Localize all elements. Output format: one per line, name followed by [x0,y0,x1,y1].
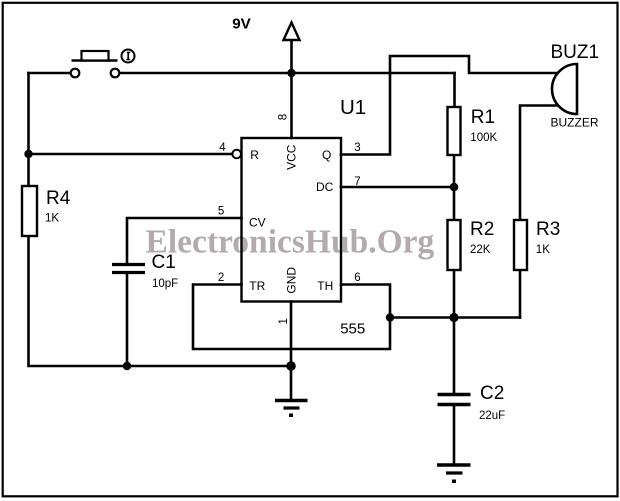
9V supply arrow [284,23,300,41]
svg-text:C2: C2 [480,383,504,404]
svg-text:10pF: 10pF [152,278,178,290]
junction dot pin1 rail [286,361,296,371]
ground symbol C2 [437,465,471,473]
svg-text:C1: C1 [152,252,176,273]
wire top rail left segment [29,72,71,75]
push button S1 left terminal [71,69,80,78]
svg-text:GND: GND [285,267,299,294]
wire pin8 VCC [290,73,293,138]
wire C2 bottom to ground [453,406,456,463]
junction dot C1 bottom rail [123,362,131,370]
svg-text:5: 5 [218,206,224,218]
push button S1 contact bar [72,59,118,62]
resistor R3 [514,220,527,270]
buzzer BUZ1 symbol [552,64,577,114]
svg-text:R1: R1 [471,107,495,128]
svg-text:BUZZER: BUZZER [551,115,599,129]
wire pin4 R [29,153,233,156]
wire R4 bottom to bottom rail [29,236,292,366]
wire pin5 CV to C1 [127,218,242,263]
svg-text:1K: 1K [536,244,550,256]
push button key icon [122,50,135,63]
junction dot TH [386,313,394,321]
wire R1 bottom to R2 top [453,155,456,220]
svg-text:R: R [250,148,259,162]
svg-text:Q: Q [322,148,331,162]
wire pin6 TH [341,285,390,318]
wire pin7 DC [341,186,454,189]
wire R3 top to buzzer [520,106,559,221]
svg-text:R3: R3 [536,219,560,240]
IC U1 555 box [242,138,342,302]
svg-text:7: 7 [354,176,360,188]
push button S1 cap [82,51,109,61]
wire left rail down [27,73,30,186]
svg-text:8: 8 [278,114,290,120]
svg-text:DC: DC [316,180,334,194]
ground symbol pin1 [275,401,308,409]
svg-text:22K: 22K [470,244,491,256]
svg-text:2: 2 [218,272,224,284]
svg-text:3: 3 [354,142,360,154]
svg-text:9V: 9V [232,16,251,33]
wire pin3 Q up and over [341,56,558,155]
junction dot pin4 left rail [24,150,32,158]
svg-text:555: 555 [340,321,365,338]
svg-text:1K: 1K [45,213,59,225]
svg-text:22uF: 22uF [479,410,505,422]
svg-text:U1: U1 [340,96,366,119]
wire 9V arrow stem [290,40,293,73]
wire drop to R1 top [453,73,456,107]
wire R2 bottom to junction [453,270,456,318]
capacitor C2 [438,395,471,405]
svg-text:ElectronicsHub.Org: ElectronicsHub.Org [146,223,435,260]
junction dot R2-C2 [449,313,458,322]
wire junction to C2 [453,318,456,394]
resistor R2 [448,220,461,270]
junction dot DC-R1R2 [450,183,459,192]
svg-text:TR: TR [249,279,265,293]
svg-text:TH: TH [317,279,333,293]
pin4 inversion bubble [232,150,241,159]
svg-text:CV: CV [249,216,266,230]
svg-text:6: 6 [354,272,360,284]
wire pin1 GND down [290,302,293,367]
resistor R1 [448,107,461,155]
wire 9V junction to R1 drop [292,72,455,75]
wire TH junction to R3 column [390,316,520,319]
svg-text:R4: R4 [46,188,71,209]
svg-text:1: 1 [278,318,290,324]
svg-text:VCC: VCC [285,144,299,170]
svg-text:4: 4 [219,142,226,154]
svg-text:BUZ1: BUZ1 [551,42,600,63]
wire pin2 TR loop [193,285,390,350]
junction dot 9V rail [287,69,295,77]
wire R3 bottom [519,270,522,318]
resistor R4 [22,186,37,236]
push button S1 right terminal [111,69,120,78]
wire switch to 9V junction [120,72,292,75]
svg-text:R2: R2 [470,219,494,240]
wire pin1 junction to ground [290,366,293,398]
svg-text:100K: 100K [470,132,497,144]
capacitor C1 [112,265,145,273]
wire C1 bottom to rail [126,274,129,366]
